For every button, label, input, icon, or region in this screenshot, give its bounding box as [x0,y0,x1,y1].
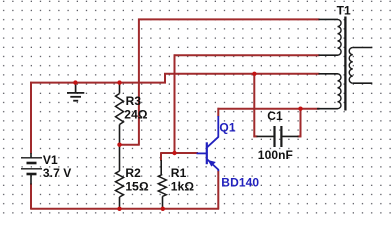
svg-text:R2: R2 [125,166,141,180]
wire R1 top corner [160,152,162,161]
svg-text:C1: C1 [267,109,283,123]
transistor Q1 [197,116,219,171]
junction C1 right tap [298,107,302,111]
svg-text:1kΩ: 1kΩ [171,180,195,194]
wire T1 pin2 horizontal [174,54,320,56]
wire vertical from R3 bottom jog up [138,19,140,146]
wire bottom rail [31,208,220,210]
transformer T1 secondary winding [349,48,353,84]
pin T1 primary bottom lead [317,108,338,110]
wire C1 left vertical from net A [253,73,255,137]
wire C1 left horizontal [253,135,257,137]
wire net A upper horizontal to T1 pin3 [164,73,320,75]
pin V1 top lead [30,153,32,158]
svg-text:Q1: Q1 [219,120,235,134]
wire base node horizontal to Q1 base [161,152,198,154]
ground [67,83,84,101]
transformer T1 secondary bottom lead [353,82,373,84]
transformer T1 core [344,17,346,111]
svg-text:R3: R3 [126,94,142,108]
wire C1 right vertical up to collector net [300,108,302,138]
svg-text:3.7 V: 3.7 V [43,166,72,180]
wire net A horizontal from V1 top [30,82,166,84]
pin T1 primary top lead [319,18,338,20]
svg-text:15Ω: 15Ω [125,180,149,194]
pin R2 top lead [119,146,121,171]
transformer T1 secondary top lead [353,47,373,49]
pin R1 top lead [160,160,162,175]
pin T1 primary second lead [319,54,338,56]
wire jog vertical at x165 [164,73,166,84]
pin R3 top lead [119,84,121,94]
junction R2 bottom [117,207,121,211]
pin C1 left lead [257,135,274,137]
wire collector horizontal to T1 pin4 [218,108,320,110]
svg-text:R1: R1 [171,166,187,180]
junction R3 top [117,80,121,84]
svg-text:24Ω: 24Ω [124,107,148,121]
wire V1 top vertical [30,82,32,154]
svg-text:100nF: 100nF [258,148,293,162]
pin V1 bottom lead [30,174,32,185]
pin T1 primary third lead [319,73,338,75]
wire collector vertical red stub [217,108,219,117]
resistor R1 [158,175,166,197]
svg-text:V1: V1 [43,153,58,167]
junction base node [172,151,176,155]
wire top horizontal to T1 pin1 [138,18,320,20]
wire emitter vertical red [217,171,219,210]
junction C1 left tap [252,72,256,76]
junction R1 bottom [161,207,165,211]
transformer T1 primary top winding [338,19,342,55]
transformer T1 primary bottom winding [338,74,341,109]
svg-text:BD140: BD140 [221,175,259,189]
resistor R3 [116,94,124,125]
capacitor C1 [275,126,282,147]
wire V1 bottom vertical [30,184,32,210]
resistor R2 [116,171,124,197]
svg-text:T1: T1 [337,4,351,18]
pin R2 bottom lead [119,197,121,208]
pin R1 bottom lead [162,197,164,209]
wire C1 right horizontal [298,135,302,137]
wire jog horizontal at R3 bottom [119,144,140,146]
battery V1 [21,158,42,174]
junction ground tap [73,80,77,84]
pin R3 bottom lead [119,125,121,145]
pin C1 right lead [282,135,299,137]
junction R3 bottom node [117,143,121,147]
wire vertical T1 pin2 down to base node [174,54,176,153]
transistor Q1 emitter arrow [208,160,216,167]
